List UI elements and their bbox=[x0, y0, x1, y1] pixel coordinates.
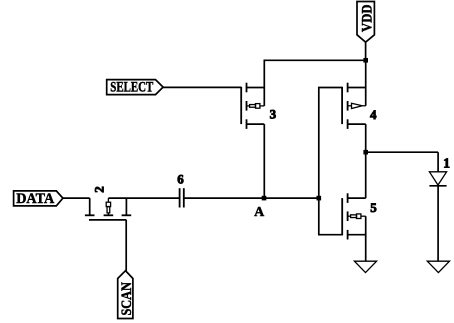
port flag SCAN bbox=[118, 271, 135, 319]
wire capacitor to node A bbox=[184, 197, 318, 199]
transistor Q4 bbox=[342, 83, 366, 129]
wire Q2 gate to SCAN bbox=[125, 220, 127, 271]
wire top rail bbox=[264, 59, 366, 61]
port flag VDD bbox=[357, 2, 375, 43]
transistor Q5 bbox=[342, 193, 366, 239]
transistor Q3 bbox=[241, 83, 264, 129]
junction node A bbox=[262, 196, 267, 201]
svg-text:6: 6 bbox=[177, 171, 184, 186]
wire diode cathode to ground bbox=[437, 186, 439, 262]
junction J1 bbox=[363, 58, 368, 63]
wire Q4 drain up bbox=[365, 60, 367, 106]
junction J2 bbox=[363, 150, 368, 155]
svg-text:A: A bbox=[254, 205, 265, 220]
wire Q5 bulk/source down to ground bbox=[365, 216, 367, 261]
svg-text:DATA: DATA bbox=[16, 191, 54, 207]
svg-text:2: 2 bbox=[92, 186, 107, 193]
ground under D1 bbox=[427, 261, 449, 272]
wire Q3 source down to node A bbox=[263, 124, 265, 198]
wire VDD stem bbox=[365, 42, 367, 61]
port flag DATA bbox=[14, 191, 63, 207]
wire gate bus lower bbox=[319, 198, 342, 235]
wire Q4 source down bbox=[365, 124, 367, 152]
svg-text:SELECT: SELECT bbox=[110, 80, 153, 96]
wire J2 to diode bbox=[366, 151, 438, 153]
wire Q2 source to capacitor bbox=[108, 197, 179, 199]
transistor Q2 bbox=[85, 198, 131, 220]
wire Q5 drain bbox=[365, 152, 367, 198]
ground under Q5 bbox=[354, 261, 376, 272]
svg-text:5: 5 bbox=[370, 200, 377, 215]
junction gate bus bbox=[317, 196, 322, 201]
port flag SELECT bbox=[107, 80, 163, 96]
wire diode anode bbox=[437, 152, 439, 172]
svg-text:SCAN: SCAN bbox=[119, 282, 135, 316]
svg-text:4: 4 bbox=[370, 107, 377, 122]
wire Q3 drain up bbox=[263, 60, 265, 106]
wire SELECT to Q3 gate bbox=[163, 86, 241, 88]
capacitor C6 bbox=[180, 188, 184, 207]
wire gate bus upper bbox=[319, 88, 342, 199]
svg-text:1: 1 bbox=[443, 156, 450, 171]
svg-text:VDD: VDD bbox=[359, 4, 375, 32]
wire DATA to Q2 bbox=[63, 197, 90, 199]
diode D1 bbox=[429, 172, 446, 186]
svg-text:3: 3 bbox=[270, 106, 277, 121]
